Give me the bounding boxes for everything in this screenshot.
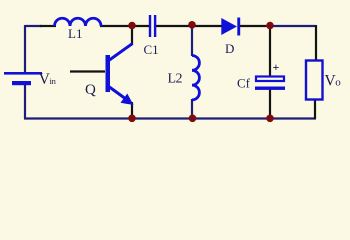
wire Cf branch bottom [269, 89, 271, 119]
wire top rail junction to right corner [266, 25, 316, 27]
wire top rail between L1 and C1 [100, 25, 150, 27]
svg-text:C1: C1 [144, 42, 159, 57]
wire left branch lower (battery bottom lead) [24, 84, 26, 119]
wire base stub of Q [70, 70, 105, 72]
svg-text:Vo: Vo [325, 73, 342, 90]
diode D anode triangle [221, 18, 237, 35]
capacitor C1 [149, 15, 151, 37]
wire bottom rail [24, 117, 316, 119]
svg-text:D: D [225, 41, 234, 56]
inductor L1 [55, 18, 102, 26]
capacitor Cf positive plate (hollow) [256, 77, 284, 82]
wire right branch upper (to load box) [315, 25, 317, 61]
node junction top of L2 [188, 21, 196, 29]
svg-text:Vin: Vin [39, 71, 57, 88]
wire L2 branch top [191, 26, 193, 56]
battery Vin positive plate (long thin) [4, 72, 42, 75]
svg-text:Cf: Cf [237, 76, 251, 91]
wire emitter vertical of Q [131, 102, 133, 119]
wire collector vertical of Q [131, 26, 133, 45]
node junction bottom of L2 [189, 115, 197, 123]
wire L2 branch bottom [191, 99, 193, 119]
transistor Q1 emitter diagonal with arrow [108, 86, 128, 101]
capacitor Cf negative plate (solid) [255, 87, 285, 90]
wire right branch lower (load box to bottom rail) [314, 99, 316, 119]
diode D cathode bar [237, 18, 240, 36]
svg-text:L2: L2 [168, 72, 183, 87]
wire top rail left segment [25, 25, 42, 27]
inductor L2 [192, 56, 199, 100]
svg-text:Q: Q [85, 82, 96, 98]
svg-text:+: + [273, 60, 280, 74]
wire left branch upper (battery top lead) [24, 25, 26, 73]
node junction top of Cf [266, 22, 274, 30]
wire top rail between C1 and diode [155, 25, 222, 27]
svg-text:L1: L1 [68, 26, 82, 41]
transistor Q1 base bar [106, 55, 111, 92]
node junction bottom of Cf [266, 115, 274, 123]
wire Cf branch top [269, 26, 271, 77]
transistor Q1 collector diagonal [108, 44, 133, 62]
battery Vin negative plate (short thick) [12, 81, 31, 85]
wire top rail left segment dark part [40, 25, 56, 27]
wire top rail between diode and right corner [239, 25, 266, 27]
load resistor box Vo [306, 61, 323, 100]
node junction top of collector [128, 22, 136, 30]
node junction bottom of emitter [128, 115, 136, 123]
